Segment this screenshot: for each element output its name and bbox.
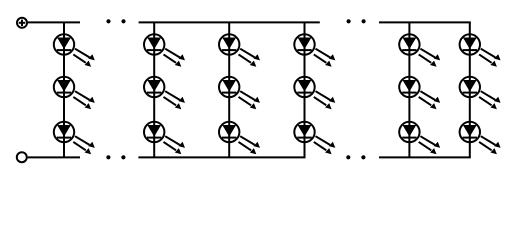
LED D6 (string 2, row 3): [144, 122, 185, 155]
wire: middle group bottom rail: [138, 156, 305, 158]
LED D16 (string 6, row 1): [460, 34, 501, 67]
wire: right group top rail: [379, 21, 471, 23]
LED D5 (string 2, row 2): [144, 77, 185, 110]
negative supply terminal: [17, 152, 27, 162]
LED D2 (string 1, row 2): [54, 77, 95, 110]
LED D17 (string 6, row 2): [460, 77, 501, 110]
continuation dots bottom-left: [106, 155, 125, 159]
LED D7 (string 3, row 1): [219, 34, 260, 67]
continuation dots top-left: [106, 19, 125, 23]
wire: LED string 4 vertical: [304, 22, 306, 157]
wire: top-left from + terminal to string 1: [28, 21, 80, 23]
wire: middle group top rail: [139, 21, 320, 23]
LED D15 (string 5, row 3): [399, 122, 440, 155]
LED D4 (string 2, row 1): [144, 34, 185, 67]
LED D3 (string 1, row 3): [54, 122, 95, 155]
LED D18 (string 6, row 3): [460, 122, 501, 155]
continuation dots bottom-right: [346, 155, 365, 159]
LED D10 (string 4, row 1): [294, 34, 335, 67]
LED D12 (string 4, row 3): [294, 122, 335, 155]
wire: LED string 3 vertical: [228, 22, 230, 157]
LED D11 (string 4, row 2): [294, 77, 335, 110]
wire: LED string 5 vertical: [408, 22, 410, 157]
continuation dots top-right: [347, 19, 366, 23]
wire: bottom-left from - terminal to string 1: [28, 156, 80, 158]
wire: LED string 6 vertical: [469, 22, 471, 157]
LED D14 (string 5, row 2): [399, 77, 440, 110]
wire: right group bottom rail: [379, 156, 471, 158]
LED D13 (string 5, row 1): [399, 34, 440, 67]
LED D1 (string 1, row 1): [54, 34, 95, 67]
positive supply terminal: [17, 18, 27, 28]
LED D9 (string 3, row 3): [219, 122, 260, 155]
wire: LED string 1 vertical: [63, 22, 65, 157]
LED D8 (string 3, row 2): [219, 77, 260, 110]
wire: LED string 2 vertical: [153, 22, 155, 157]
